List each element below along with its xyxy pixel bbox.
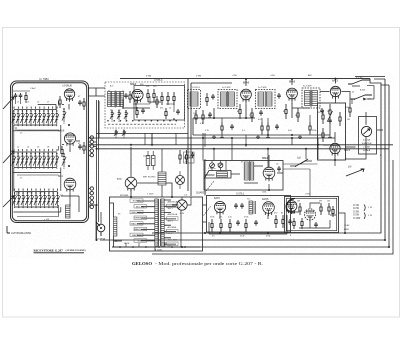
capacitor C1 near V1 [78, 98, 85, 110]
resistor R10 [147, 89, 149, 102]
crystal oscillator dashed enclosure [105, 79, 185, 128]
capacitor C40 [236, 220, 240, 226]
coil bank L1-L9 top tick labels [14, 107, 57, 109]
squelch enclosure [285, 197, 339, 233]
value labels osc [108, 86, 171, 112]
B+ bus 2 [96, 148, 389, 150]
detector wiring [320, 92, 350, 104]
tube V3 oscillator [58, 175, 76, 192]
value labels IF bottom [193, 111, 330, 132]
wire BFO [244, 155, 283, 190]
fuse F1 [114, 217, 117, 236]
resistor R26 [329, 104, 331, 120]
coil bank L19-L27 (band 3) [12, 192, 60, 213]
capacitor C21 [208, 112, 212, 118]
power supply enclosure [110, 197, 203, 251]
crystal trimmer CV1 [210, 163, 215, 168]
antenna band arrow 1 [3, 97, 14, 109]
extra IF parts [261, 115, 311, 135]
wire audio bottom bus [209, 214, 287, 235]
AVC bus [88, 134, 335, 139]
resistor R32 [322, 128, 324, 142]
wire V1 cathode run [62, 104, 69, 110]
resistor R37 [185, 150, 187, 164]
IF transformer T5 [256, 90, 276, 109]
wire TS1 to tuner [89, 138, 91, 156]
label QUARZO [196, 181, 214, 195]
extra tuner labels [20, 87, 50, 221]
legend values [353, 205, 373, 220]
resistor R31 [322, 110, 333, 124]
T1 left taps [130, 199, 155, 243]
wire box internal bus [14, 125, 61, 192]
wire BFO to limiter [283, 164, 318, 197]
label IFT1 [192, 87, 231, 89]
switch S5 AF gain [300, 86, 374, 164]
wire audio to rails [291, 213, 346, 233]
power labels [120, 156, 163, 252]
filter choke L32 [158, 149, 166, 197]
S-meter enclosure [359, 117, 377, 155]
BFO enclosure [204, 161, 283, 191]
resistor R33 [339, 112, 341, 126]
trimmer row [110, 110, 128, 122]
extra right labels [347, 89, 382, 158]
tube V2 6AU6 mixer [58, 130, 76, 147]
resistor R44 [275, 215, 277, 228]
resistor R36 [179, 150, 181, 164]
label IFT2 [258, 87, 267, 89]
resistor R45 [282, 215, 284, 228]
resistor R1 under V1 [59, 96, 61, 108]
wire det to audio [318, 147, 335, 166]
capacitor C12 [176, 109, 180, 115]
IF ground stubs [220, 135, 332, 137]
tube V1 6AU6 RF amp [62, 85, 75, 102]
capacitor C32 [277, 166, 281, 172]
speaker ALTOPARLANTE [7, 226, 31, 235]
resistor R13 [165, 108, 167, 119]
tube V10 6AT6 AF amp [214, 197, 226, 215]
tube V14 5Y3 rectifier [117, 177, 137, 191]
HT bus top [120, 79, 370, 196]
switch S2 antenna trim [348, 77, 370, 85]
antenna trim caps [13, 91, 30, 104]
wire limiter [323, 132, 335, 160]
wire left box to bus [88, 205, 96, 240]
wire osc to bus [145, 133, 176, 145]
tube V4 converter [130, 83, 145, 103]
wire tuner to IF [94, 101, 100, 146]
wire right rail C [112, 85, 389, 247]
tube V7 6AL5 detector [330, 79, 340, 100]
wire right rail B [100, 77, 385, 241]
extra audio labels [212, 194, 311, 238]
label IFT3 [303, 86, 312, 88]
trimmers below osc box [114, 130, 126, 139]
resistor R20 [195, 110, 197, 124]
extra IF wiring [222, 100, 292, 136]
tube V5 6BA6 IF amp 1 [241, 79, 252, 103]
RF tuner unit enclosure [11, 77, 89, 223]
IF transformer T3 primary [188, 90, 201, 109]
extra power labels [118, 194, 188, 246]
wire squelch [288, 203, 336, 215]
tube V8 6AL5 limiter [330, 143, 351, 156]
resistor R47 [320, 203, 322, 215]
IF lower bus [193, 103, 330, 135]
power transformer T1 core [158, 199, 160, 246]
wire osc box to tuner [88, 88, 105, 96]
resistor R21 [202, 110, 204, 124]
wire V3 leads [61, 193, 79, 213]
terminal strip TS1 [90, 136, 93, 157]
mains plug [110, 203, 123, 247]
capacitor C30 [328, 118, 332, 124]
band switch S1 contacts [107, 120, 177, 124]
dial lamp LP2 [176, 171, 185, 189]
antenna band arrow 3 [3, 196, 14, 207]
wire junction dots [68, 78, 390, 248]
IF screen resistors [221, 122, 279, 134]
tube V13 dashed [304, 209, 315, 220]
wire V2 cathode run [62, 141, 80, 152]
wire osc internal [123, 99, 161, 110]
switch S4 BFO [290, 158, 312, 167]
B+ bus 1 [88, 144, 393, 146]
capacitor C42 [314, 222, 318, 228]
capacitor C20 [277, 93, 281, 99]
resistor R48 [328, 203, 330, 215]
extra top labels [146, 74, 313, 78]
pilot lamp LP1 [177, 200, 187, 215]
crystal trimmer CV2 [218, 163, 223, 168]
svg-text:GELOSO: GELOSO [132, 261, 153, 266]
volume control VR1 [346, 167, 364, 177]
tube V9 BFO [262, 157, 275, 182]
audio amp enclosure [207, 193, 291, 233]
power transformer T1 primary [155, 199, 158, 246]
resistor R43 [245, 219, 247, 232]
antenna band arrow 2 [3, 151, 14, 163]
transformer T2 windings [108, 91, 124, 108]
oscillator coil L28 [66, 205, 71, 218]
capacitor C41 [254, 220, 258, 226]
capacitor C22 [259, 110, 263, 116]
resistor R46 [299, 203, 301, 215]
wire mid verticals [152, 133, 246, 147]
resistor R25 [297, 108, 299, 122]
wire crystal row [212, 161, 240, 175]
wire rail D [152, 160, 393, 254]
caption left RICEVITORE [34, 248, 86, 253]
BFO labels [217, 162, 279, 194]
limiter enclosure [318, 103, 346, 160]
meter M1 [361, 126, 371, 152]
squelch curve bold [286, 198, 295, 211]
resistor R23 [251, 108, 253, 122]
capacitor C33 [191, 152, 195, 158]
bus drops [152, 133, 318, 167]
T1 right taps [164, 200, 178, 248]
wire BFO to audio [205, 159, 215, 196]
terminal strip TS2 [90, 187, 93, 209]
resistor R30 [349, 103, 351, 117]
power transformer T1 secondary [161, 199, 164, 246]
caption GELOSO [132, 261, 263, 266]
wire rectifier [131, 147, 172, 197]
tube V11 6AQ5 output [262, 198, 274, 216]
wire power to audio [203, 205, 207, 222]
switch S3 [350, 95, 372, 100]
extra legend col [344, 224, 350, 231]
resistor R22 [239, 104, 241, 119]
wire TS2 to tuner [89, 189, 91, 207]
capacitor C23 [320, 108, 324, 114]
wire meter leads [345, 112, 366, 152]
coil bank L10-L18 labels [14, 149, 57, 151]
interstage transformer T7 [234, 201, 255, 214]
label top right [345, 92, 355, 110]
resistor R41 [220, 219, 222, 232]
value labels tuner [17, 96, 81, 197]
resistor R2 under V2 [61, 146, 63, 157]
resistor R12 [161, 92, 175, 105]
BFO coil L31 [244, 161, 254, 181]
coil bank L1-L9 (band 1) [12, 104, 61, 130]
dial lamp wiring [172, 197, 191, 205]
svg-text:- Mod. professionale per onde: - Mod. professionale per onde corte G.20… [155, 261, 263, 266]
jack J1 phones [96, 222, 105, 241]
mixer grid parts [206, 93, 215, 106]
squelch extra parts [288, 206, 334, 229]
crystal X1 holder [205, 168, 232, 178]
IF transformer T4 [218, 90, 237, 109]
wire jack to rails [97, 100, 102, 240]
tuner bottom bus [17, 130, 59, 217]
filter caps C50 C51 [146, 151, 155, 170]
capacitor C2 mid [78, 142, 85, 154]
coil bank L19-L27 labels [15, 189, 58, 191]
osc extra parts [122, 96, 175, 120]
power bottom bus [112, 210, 200, 251]
tube V12 partial shield [286, 199, 297, 214]
label BFO boxes [184, 152, 195, 163]
IF transformer T6 [302, 88, 320, 108]
wire right rail A [152, 79, 381, 233]
tuner osc trimmers [62, 108, 66, 169]
left box inner vertical [16, 101, 58, 196]
resistor R24 [285, 104, 287, 119]
resistor R40 [204, 207, 214, 233]
ground symbols IF [212, 135, 302, 138]
resistor R42 [229, 219, 231, 232]
tube V6 6BA6 IF amp 2 [287, 79, 298, 102]
meter wiring [345, 130, 383, 159]
coil bank L10-L18 (band 2) [12, 152, 61, 173]
capacitor C11 [129, 91, 131, 103]
value labels audio [210, 199, 330, 219]
capacitor C10 [124, 93, 128, 99]
resistor R11 [153, 89, 155, 102]
